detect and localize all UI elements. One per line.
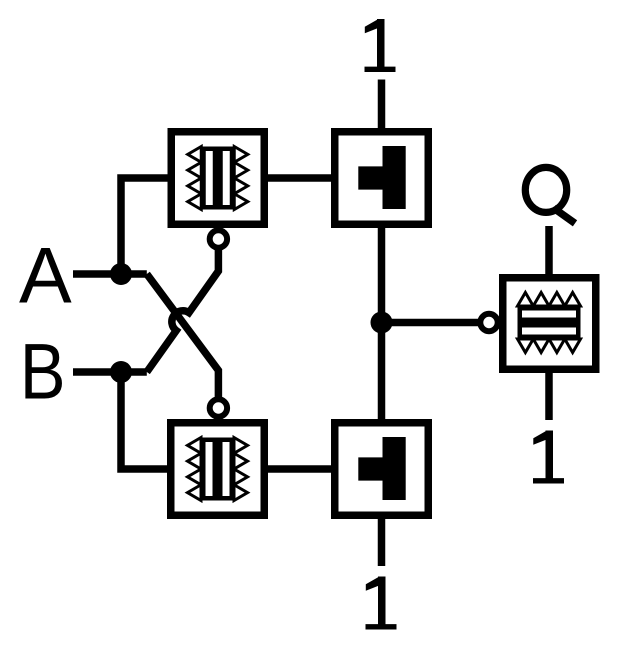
label Q (output) bbox=[525, 167, 575, 223]
inverter bubble above U3 bbox=[210, 399, 227, 416]
coupler symbol inside U3 bbox=[188, 438, 248, 501]
gate box U4 (bottom nanomagnet cell) bbox=[331, 419, 432, 519]
wire node N to U5 input bbox=[382, 319, 479, 327]
svg-text:A: A bbox=[19, 231, 72, 320]
junction dot on input B bbox=[110, 361, 132, 383]
nanomagnet symbol inside U4 bbox=[358, 437, 405, 500]
wire from constant 1 (top) to U2 bbox=[378, 80, 386, 129]
nanomagnet symbol inside U2 bbox=[358, 146, 405, 209]
junction dot on input A bbox=[110, 263, 132, 285]
wire A branch up to U1 bbox=[121, 178, 168, 274]
label B (input) bbox=[20, 327, 66, 416]
svg-text:B: B bbox=[20, 327, 66, 416]
wire A diagonal to U3 top bubble bbox=[147, 274, 219, 399]
wire Q label to U5 top bbox=[545, 226, 553, 274]
junction dot node N bbox=[371, 312, 393, 334]
constant 1 label (bottom) bbox=[366, 577, 397, 630]
coupler symbol inside U1 bbox=[188, 147, 248, 210]
gate box U1 (top-left coupler cell) bbox=[168, 128, 269, 228]
wire input B bbox=[73, 368, 147, 376]
gate box U5 (output coupler cell) bbox=[499, 274, 600, 373]
coupler symbol inside U5 bbox=[518, 293, 581, 353]
wire input A bbox=[73, 270, 147, 278]
gate box U2 (top nanomagnet cell) bbox=[331, 128, 432, 228]
wire B diagonal with hop to U1 bottom bubble bbox=[147, 249, 219, 372]
inverter bubble at U5 input bbox=[480, 314, 497, 331]
wire U2 to U4 (vertical bus) bbox=[378, 228, 386, 419]
inverter bubble below U1 bbox=[210, 230, 227, 247]
wire U4 to constant 1 (bottom) bbox=[378, 519, 386, 566]
constant 1 label (top) bbox=[365, 19, 396, 72]
wire U3 output to U4 input bbox=[268, 465, 332, 473]
gate box U3 (bottom-left coupler cell) bbox=[167, 419, 268, 519]
constant 1 label (right) bbox=[533, 431, 564, 484]
wire U1 output to U2 input bbox=[268, 174, 332, 182]
wire U5 bottom to constant 1 (right) bbox=[545, 373, 553, 420]
wire B branch down to U3 bbox=[121, 372, 167, 469]
